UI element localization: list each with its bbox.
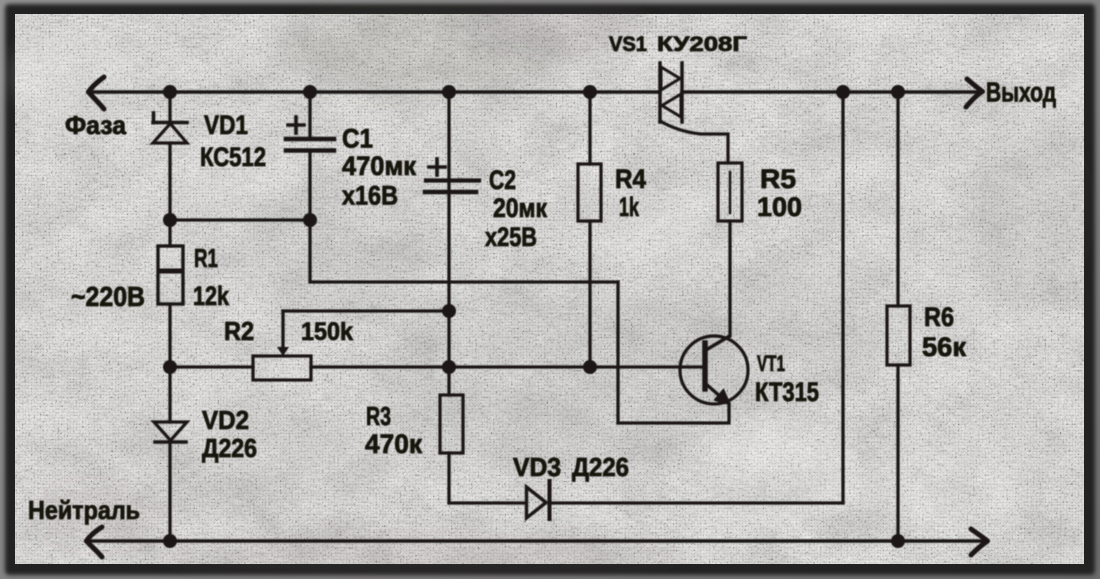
svg-text:VT1: VT1 (757, 351, 785, 376)
node: bottom rail / R6 (891, 534, 905, 548)
wire: top rail right of triac VS1 (682, 90, 981, 94)
wire: top rail left of triac VS1 (88, 90, 660, 94)
svg-text:~220В: ~220В (71, 281, 145, 312)
wire: right riser x843 (VD3 to top rail) (841, 92, 844, 503)
wire: emitter return bottom y423 to emitter (618, 404, 729, 423)
wire: emitter return vertical x618 down to y423 (616, 282, 619, 423)
resistor R5 (718, 163, 742, 336)
node: C2 line / wiper link (442, 304, 456, 318)
node: top rail / C2 branch (442, 85, 456, 99)
zener diode VD1 (153, 113, 187, 143)
capacitor C1 (286, 92, 334, 220)
node: top rail / C1 branch (303, 85, 317, 99)
svg-text:20мк: 20мк (493, 193, 547, 223)
wire: VD3 line to right riser (550, 501, 843, 504)
node: top rail / VD3 return (836, 85, 850, 99)
transistor VT1 (680, 336, 748, 405)
svg-text:VD3: VD3 (513, 452, 561, 482)
svg-text:Выход: Выход (986, 77, 1056, 108)
svg-text:R6: R6 (924, 302, 954, 332)
svg-text:R4: R4 (615, 164, 646, 194)
wire: R3 bottom to VD3 line (449, 453, 526, 503)
node: bottom rail / left rail (163, 534, 177, 548)
capacitor C2 (425, 92, 479, 311)
node: top rail / R4 branch (583, 85, 597, 99)
wire: left rail VD1 to node y220 (168, 143, 171, 246)
svg-text:Фаза: Фаза (65, 110, 127, 140)
wire: left rail upper segment (top rail to VD1) (168, 92, 171, 124)
wire: C2 line wiper node to base line (447, 311, 450, 367)
svg-text:КТ315: КТ315 (755, 377, 819, 407)
svg-text:C1: C1 (342, 124, 373, 154)
wire: emitter return - C1 node down and right to x618 (310, 220, 618, 282)
node: top rail / VD1 branch (163, 85, 177, 99)
svg-text:VS1: VS1 (609, 33, 647, 56)
svg-text:R1: R1 (194, 243, 218, 273)
svg-text:R2: R2 (224, 316, 254, 346)
wire: base line left (left rail to R2) (170, 365, 253, 368)
wire: left rail VD2 to bottom rail (168, 442, 171, 541)
svg-text:Нейтраль: Нейтраль (28, 495, 140, 525)
wire: y220 link VD1 bottom to C1 bottom (170, 218, 310, 221)
node: left rail / y220 link (163, 213, 177, 227)
arrow: bottom-right (971, 529, 988, 555)
node: base line / R4 (583, 360, 597, 374)
arrow: top-left (Фаза lead) (89, 77, 105, 109)
resistor R3 (440, 395, 463, 453)
node: C2 line / base line (442, 360, 456, 374)
triac VS1 (660, 63, 728, 163)
svg-text:VD2: VD2 (202, 405, 249, 435)
diode VD2 (154, 422, 187, 442)
wire: wiper link to C2 line (283, 309, 449, 312)
svg-text:R5: R5 (760, 164, 796, 194)
svg-text:R3: R3 (366, 401, 391, 431)
svg-text:VD1: VD1 (204, 110, 248, 140)
arrow: top-right (Выход lead) (966, 79, 983, 107)
svg-text:Д226: Д226 (202, 433, 257, 463)
svg-text:150k: 150k (301, 318, 353, 346)
resistor R4 (578, 92, 601, 367)
svg-text:56к: 56к (922, 332, 966, 362)
node: top rail / R6 branch (891, 85, 905, 99)
wire: bottom rail (Нейтраль) (86, 539, 986, 543)
wire: base line (R2 to VT1 base) (311, 365, 703, 368)
svg-text:100: 100 (757, 192, 802, 222)
svg-text:12k: 12k (193, 281, 230, 311)
arrow: bottom-left (Нейтраль lead) (87, 527, 103, 557)
svg-text:C2: C2 (489, 165, 516, 195)
svg-text:КС512: КС512 (200, 142, 266, 172)
resistor R6 (887, 92, 910, 541)
diode VD3 (527, 481, 550, 519)
svg-text:x16В: x16В (342, 181, 398, 211)
wire: C2 line base node to R3 (447, 367, 450, 395)
resistor R1 (158, 246, 183, 304)
node: C1 bottom / y220 link (303, 213, 317, 227)
svg-text:КУ208Г: КУ208Г (657, 33, 747, 56)
potentiometer R2 (253, 311, 311, 380)
svg-text:470мк: 470мк (342, 151, 416, 181)
svg-text:Д226: Д226 (572, 452, 629, 482)
svg-text:x25В: x25В (485, 222, 537, 252)
svg-text:1k: 1k (619, 192, 640, 222)
svg-text:470к: 470к (365, 429, 422, 459)
node: left rail / base line (163, 360, 177, 374)
wire: left rail R1 to base line (168, 305, 171, 422)
